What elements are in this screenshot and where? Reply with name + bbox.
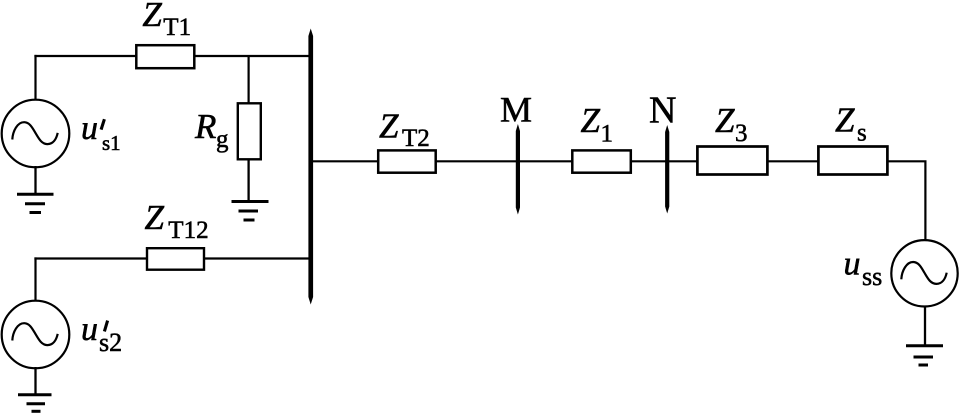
- ground below source 2: [18, 367, 52, 411]
- svg-text:Z: Z: [145, 198, 165, 237]
- resistor Rg: [238, 103, 261, 159]
- label uss: [844, 246, 883, 292]
- wire main line busbar to ZT2: [311, 160, 379, 162]
- impedance Z1: [572, 150, 631, 172]
- label Z1: [581, 101, 614, 148]
- busbar: [308, 29, 313, 305]
- svg-text:s: s: [857, 120, 867, 147]
- AC source uss: [891, 240, 957, 306]
- label Zs: [835, 101, 867, 147]
- svg-text:Z: Z: [835, 101, 855, 140]
- svg-text:3: 3: [735, 120, 748, 147]
- label ZT1: [142, 0, 191, 41]
- svg-text:s2: s2: [99, 328, 122, 357]
- label u's1: [81, 110, 121, 155]
- wire top horizontal from source 1 to busbar: [34, 55, 310, 57]
- wire Z1 to Z3 through node N: [630, 160, 698, 162]
- label Rg: [194, 107, 229, 153]
- svg-text:u: u: [81, 110, 98, 147]
- wire Rg tap: [248, 56, 250, 103]
- label ZT2: [379, 107, 430, 153]
- node N tick: [665, 125, 669, 214]
- wire vertical source 1 to top wire: [34, 55, 36, 100]
- wire bottom horizontal from source 2 to busbar: [34, 257, 310, 259]
- svg-text:R: R: [194, 107, 216, 146]
- svg-text:u: u: [81, 311, 98, 348]
- svg-text:u: u: [844, 246, 861, 283]
- svg-text:T1: T1: [163, 14, 191, 41]
- label Z3: [715, 101, 748, 147]
- svg-text:ss: ss: [862, 262, 882, 291]
- svg-text:M: M: [500, 90, 532, 130]
- label ZT12: [145, 198, 209, 244]
- svg-text:Z: Z: [379, 107, 399, 146]
- wire Zs to source uss: [887, 161, 925, 241]
- wire Z3 to Zs: [767, 160, 819, 162]
- ground below source 1: [17, 166, 54, 213]
- impedance ZT2: [378, 150, 436, 172]
- ground below source uss: [906, 306, 943, 365]
- svg-text:Z: Z: [581, 101, 601, 140]
- impedance ZT1: [136, 45, 194, 68]
- svg-text:N: N: [649, 90, 676, 132]
- label u's2: [81, 311, 122, 357]
- impedance ZT12: [147, 248, 204, 270]
- svg-text:T12: T12: [168, 217, 208, 244]
- svg-text:g: g: [216, 126, 229, 153]
- svg-text:s1: s1: [102, 131, 121, 155]
- AC source U's1: [2, 100, 70, 168]
- node M tick: [516, 124, 520, 215]
- AC source U's2: [2, 301, 70, 369]
- svg-text:Z: Z: [142, 0, 162, 34]
- ground below Rg: [232, 159, 269, 220]
- impedance Z3: [697, 147, 767, 175]
- svg-text:T2: T2: [402, 125, 430, 152]
- svg-text:1: 1: [601, 120, 614, 147]
- svg-text:Z: Z: [715, 101, 735, 140]
- wire vertical source 2 to bottom wire: [34, 257, 36, 301]
- wire ZT2 to Z1 through node M: [436, 160, 573, 162]
- impedance Zs: [818, 147, 887, 175]
